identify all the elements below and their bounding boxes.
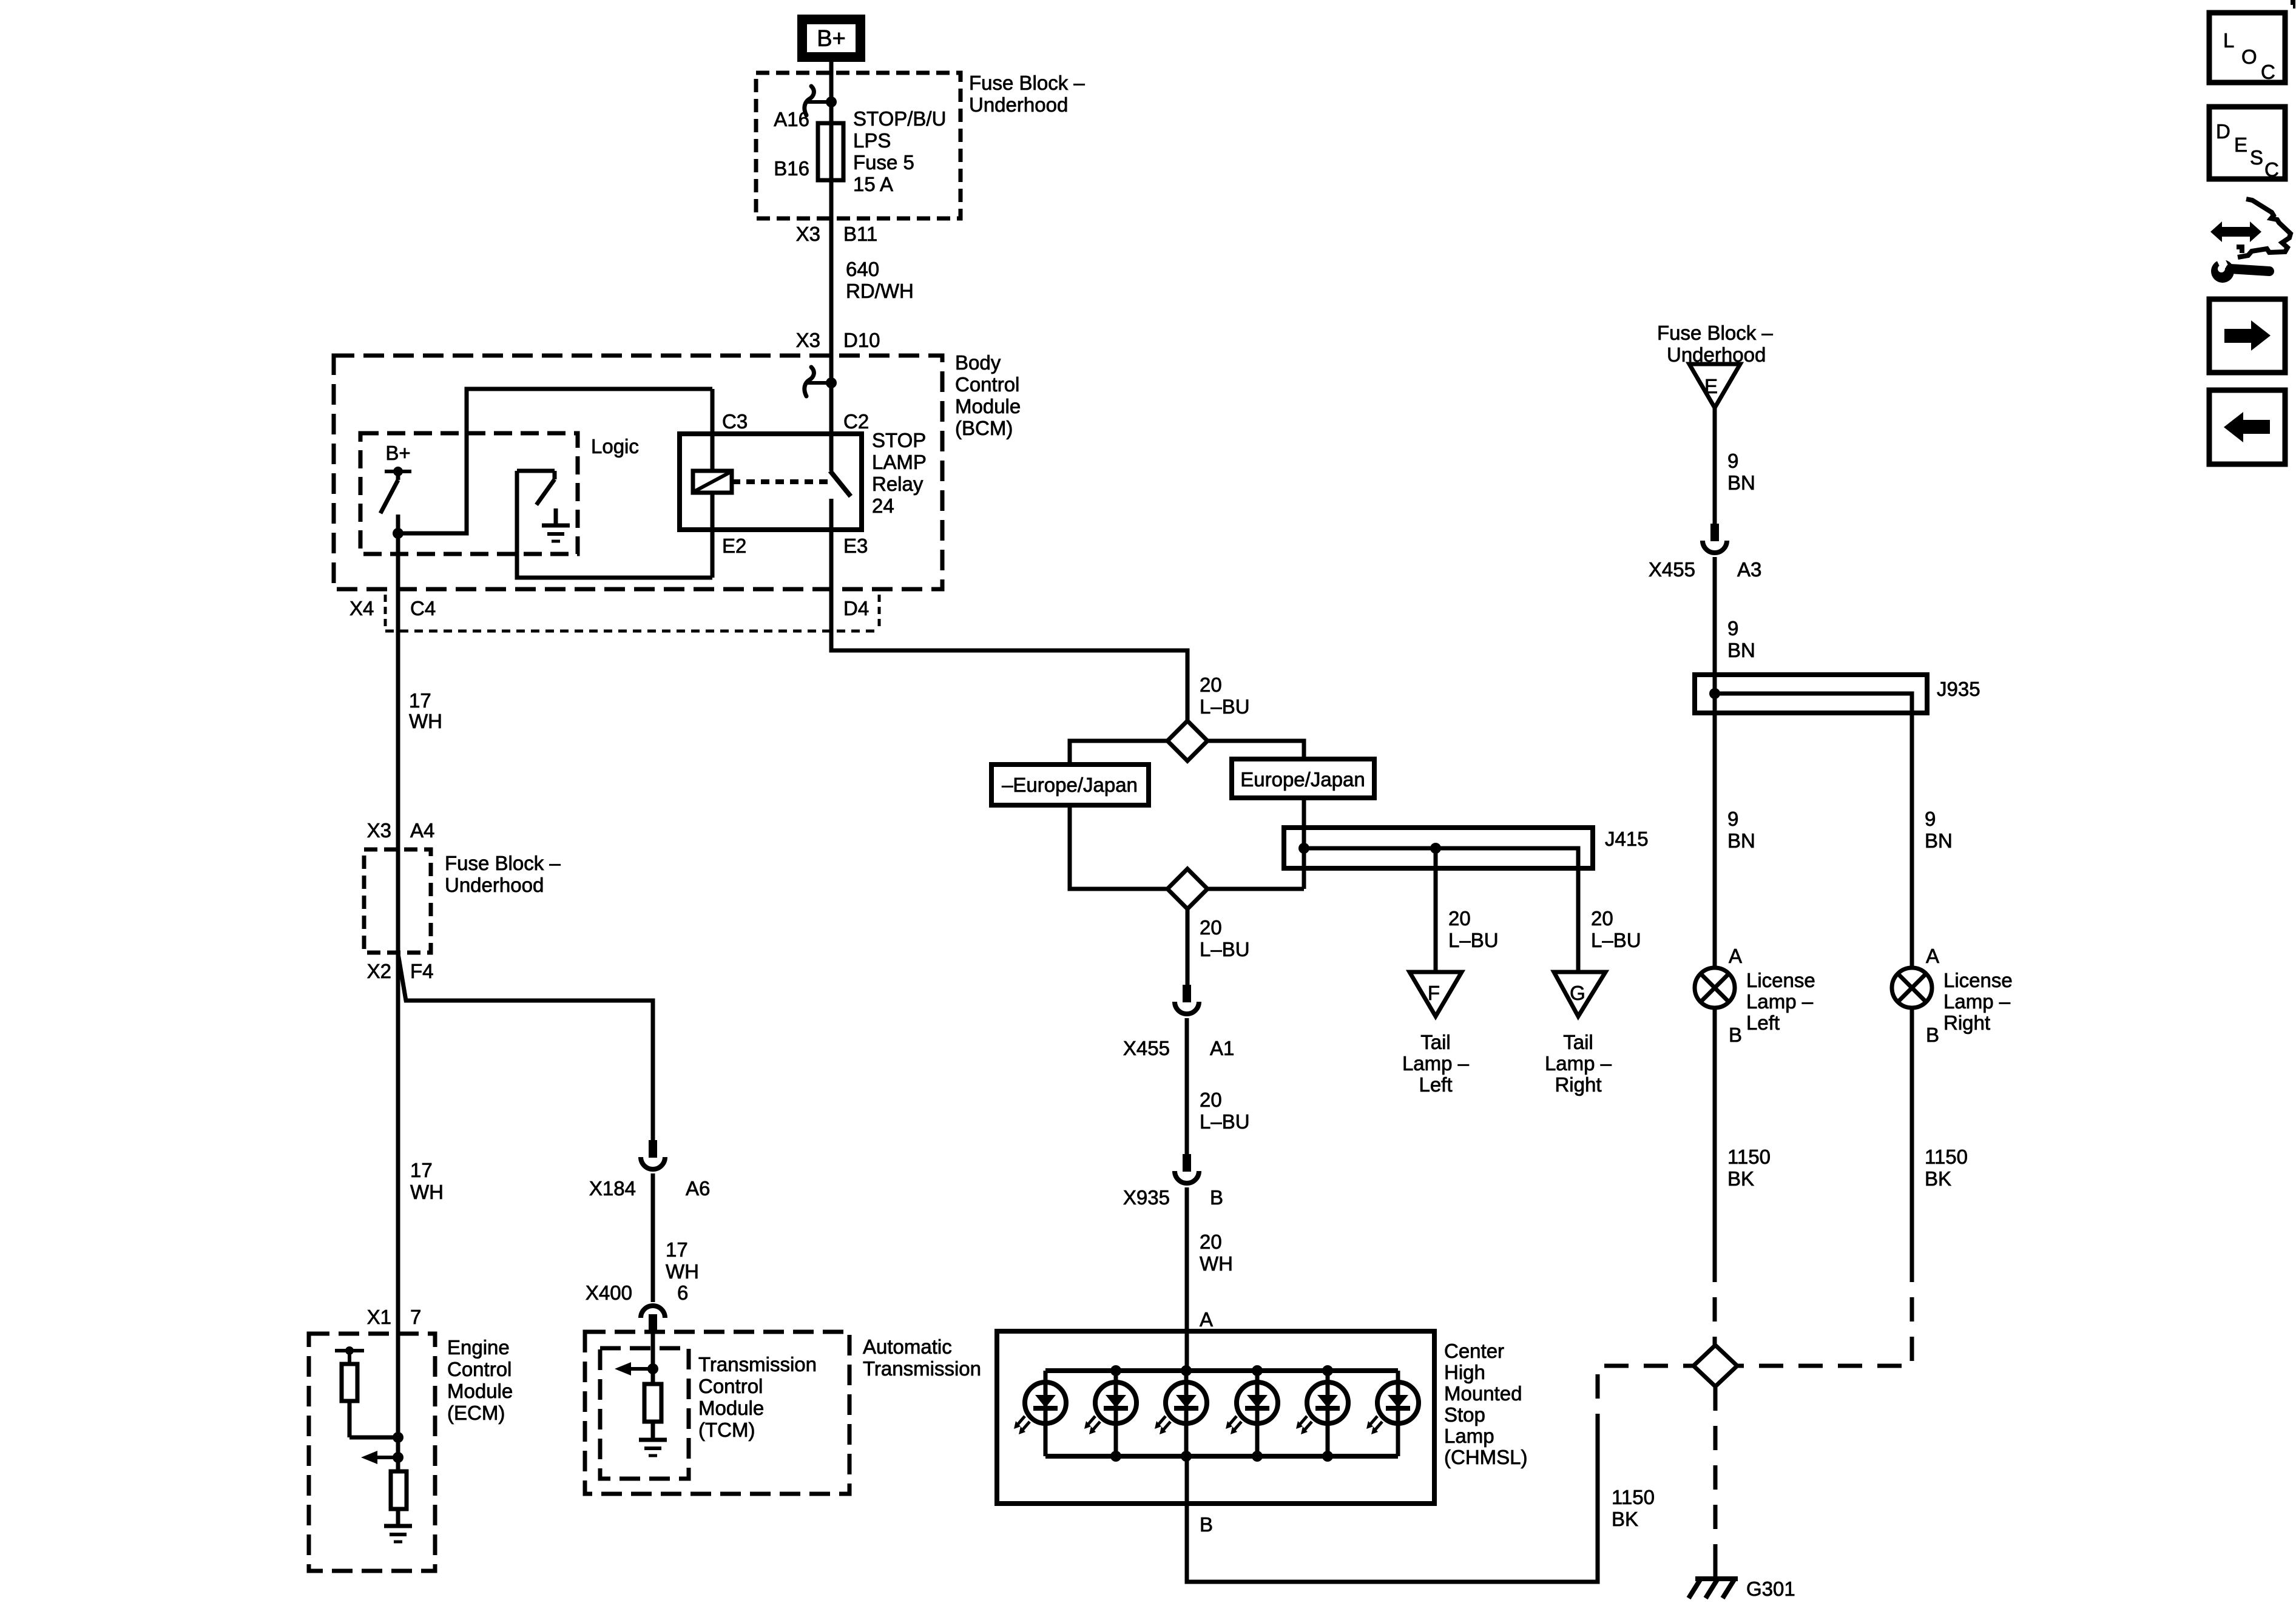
label D10 [843,329,880,351]
svg-text:License: License [1943,969,2013,991]
label A (CHMSL pin) [1200,1308,1213,1331]
fuse F5 STOP/B/U LPS 15A [818,123,843,180]
relay coil (C3-E2) [693,389,732,578]
label wire 17 WH (TCM) [666,1238,699,1283]
svg-text:Automatic: Automatic [863,1335,952,1358]
svg-text:WH: WH [409,710,442,732]
label G301 [1746,1578,1795,1600]
CHMSL LED bus rails [1045,1371,1398,1456]
wire B+ switch to logic [393,515,403,539]
svg-text:D10: D10 [843,329,880,351]
svg-text:Fuse Block –: Fuse Block – [969,72,1085,94]
label Engine Control Module (ECM) [447,1336,513,1424]
label F4 [410,960,434,982]
svg-text:17: 17 [409,689,431,712]
label B11 [843,223,877,245]
svg-text:Fuse Block –: Fuse Block – [1657,322,1773,344]
label Tail Lamp - Right [1545,1031,1612,1096]
svg-text:B: B [1926,1024,1939,1046]
svg-text:E: E [2234,133,2247,156]
svg-text:BN: BN [1727,829,1755,852]
splice diamond (lower) [1167,869,1207,909]
svg-text:Fuse 5: Fuse 5 [853,151,914,174]
svg-text:L–BU: L–BU [1200,938,1250,960]
wire B+ to fuse block [829,62,834,123]
label Automatic Transmission [863,1335,981,1380]
svg-text:STOP: STOP [872,429,926,451]
svg-text:X3: X3 [796,329,820,351]
svg-text:B: B [1200,1513,1213,1536]
svg-text:B+: B+ [817,26,846,52]
label 6 [677,1281,688,1304]
label wire 20 WH [1200,1230,1233,1275]
inline connector X935 B [1175,1154,1199,1183]
label B (left lamp) [1729,1024,1742,1046]
dashed wire right lamp to diamond [1737,1258,1912,1366]
svg-text:BK: BK [1925,1167,1951,1190]
wire left lamp ground 1150 BK [1713,1008,1717,1258]
svg-text:20: 20 [1200,1230,1222,1253]
svg-text:Left: Left [1746,1011,1780,1034]
wire Europe/Japan through J415 [1302,798,1306,889]
svg-text:(BCM): (BCM) [955,417,1013,439]
svg-text:Engine: Engine [447,1336,510,1359]
svg-text:G301: G301 [1746,1578,1795,1600]
svg-text:Body: Body [955,351,1001,374]
license lamp left symbol [1695,968,1735,1008]
svg-text:A4: A4 [410,819,434,842]
label X3 (fuse block pin) [796,223,820,245]
svg-text:Stop: Stop [1444,1403,1485,1426]
svg-text:X2: X2 [367,960,391,982]
svg-text:B: B [1210,1186,1223,1209]
svg-text:X3: X3 [367,819,391,842]
svg-text:Lamp –: Lamp – [1402,1052,1470,1075]
svg-text:WH: WH [1200,1252,1233,1275]
svg-text:Control: Control [447,1358,512,1380]
svg-text:20: 20 [1448,907,1471,930]
wire through J935 to left lamp [1713,675,1717,968]
svg-text:X935: X935 [1123,1186,1170,1209]
dashed wire left lamp to diamond [1713,1258,1717,1345]
wire inside ECM [396,1334,400,1471]
svg-text:X455: X455 [1649,558,1695,581]
svg-text:1150: 1150 [1727,1146,1771,1168]
svg-text:O: O [2241,46,2257,68]
svg-text:(TCM): (TCM) [698,1419,755,1441]
label License Lamp - Right [1943,969,2013,1034]
svg-text:X1: X1 [367,1306,391,1328]
off-page triangle F tail lamp left [1410,972,1462,1016]
label wire 1150 BK (CHMSL) [1612,1486,1655,1530]
wire X935 to CHMSL [1185,1187,1189,1371]
svg-text:Right: Right [1943,1011,1990,1034]
svg-text:J935: J935 [1937,678,1980,700]
label wire 20 L-BU (above X935) [1200,1089,1250,1133]
label C2 [843,410,869,433]
svg-text:(CHMSL): (CHMSL) [1444,1446,1528,1468]
label B16 [774,157,809,180]
svg-text:C: C [2261,61,2275,83]
relay switch (C2-E3) [830,471,851,530]
splice pack J415 [1284,828,1593,868]
label fuse block underhood (right) [1657,322,1773,366]
wire F4 to ECM [396,849,400,1334]
wire to Europe/Japan option [1207,741,1304,759]
svg-text:Lamp –: Lamp – [1545,1052,1612,1075]
TCM resistor [644,1369,661,1440]
label wire 20 L-BU (upper) [1200,673,1250,718]
label A6 [686,1177,710,1200]
svg-text:9: 9 [1727,808,1738,830]
inline connector X455 A3 [1703,524,1727,553]
label B+ (BCM internal) [385,442,410,464]
svg-text:D: D [2216,120,2230,143]
label fuse block underhood (top) [969,72,1085,116]
LED 3 of CHMSL [1155,1365,1207,1462]
svg-text:A6: A6 [686,1177,710,1200]
svg-text:X400: X400 [586,1281,632,1304]
wire branch to TCM [398,954,653,1140]
label fuse block underhood (left) [445,852,561,896]
wire X184 to X400 [651,1173,655,1302]
svg-text:A: A [1729,945,1742,967]
ground G301 symbol [1689,1579,1738,1598]
svg-text:Relay: Relay [872,473,923,495]
label E2 [722,535,746,557]
power feed B+ terminal box [802,19,860,57]
inline connector X400 6 [641,1306,665,1333]
wire -Europe/Japan to lower diamond [1070,805,1167,889]
label J415 [1605,828,1649,850]
wire CHMSL ground 1150 BK [1187,1438,1598,1582]
label X4 [349,597,374,619]
label A4 [410,819,434,842]
J415 internal bus [1298,843,1578,868]
label D4 [843,597,869,619]
svg-text:X455: X455 [1123,1037,1170,1059]
svg-text:F4: F4 [410,960,434,982]
label X184 [589,1177,636,1200]
svg-text:BK: BK [1612,1508,1638,1530]
logic internal switch to ground [517,471,555,505]
dashed wire diamond to G301 [1714,1386,1718,1579]
wire J935 to right lamp [1910,713,1914,968]
label Center High Mounted Stop Lamp (CHMSL) [1444,1340,1528,1468]
svg-text:640: 640 [846,258,879,280]
svg-text:L–BU: L–BU [1448,929,1499,951]
svg-text:20: 20 [1200,916,1222,939]
svg-text:24: 24 [872,495,894,517]
TCM internal ground [639,1440,667,1456]
TCM signal tap arrow [615,1362,658,1376]
label wire 20 L-BU (tail left) [1448,907,1499,951]
page corner mark [2291,0,2295,8]
icon forward arrow box [2209,299,2285,373]
label X455 (A1) [1123,1037,1170,1059]
svg-text:LAMP: LAMP [872,451,927,473]
svg-text:WH: WH [410,1181,444,1203]
svg-text:E2: E2 [722,535,746,557]
svg-text:20: 20 [1200,673,1222,696]
off-page triangle E fuse block [1689,364,1740,408]
svg-text:A1: A1 [1210,1037,1234,1059]
svg-text:F: F [1428,982,1440,1004]
svg-text:–Europe/Japan: –Europe/Japan [1002,774,1138,796]
label E3 [843,535,868,557]
svg-text:B16: B16 [774,157,809,180]
svg-text:A16: A16 [774,108,809,130]
svg-text:B11: B11 [843,223,877,245]
engine control module dashed box [309,1334,435,1571]
svg-text:E: E [1704,375,1718,397]
label B (X935) [1210,1186,1223,1209]
LED 2 of CHMSL [1084,1365,1136,1462]
svg-text:Europe/Japan: Europe/Japan [1240,768,1365,791]
svg-text:1150: 1150 [1925,1146,1968,1168]
inline connector X455 A1 [1175,985,1199,1014]
logic dashed box [360,433,578,554]
label B (CHMSL pin) [1200,1513,1213,1536]
svg-text:L–BU: L–BU [1200,1110,1250,1133]
label wire 640 RD/WH [846,258,914,302]
svg-text:Fuse Block –: Fuse Block – [445,852,561,874]
svg-text:1150: 1150 [1612,1486,1655,1508]
label X2 [367,960,391,982]
label A3 [1737,558,1761,581]
svg-text:J415: J415 [1605,828,1649,850]
body control module dashed box [334,356,942,589]
relay box STOP LAMP Relay 24 [680,434,862,530]
svg-text:BN: BN [1727,471,1755,494]
label Logic [591,435,639,457]
label wire 9 BN (left lamp) [1727,808,1755,852]
svg-text:A: A [1200,1308,1213,1331]
CHMSL housing box [997,1331,1434,1504]
fuse block bus hook at A16 [805,86,837,115]
label X3 (left fuse block) [367,819,391,842]
svg-text:Right: Right [1555,1073,1601,1096]
ECM internal ground [384,1526,412,1542]
BCM bus hook at D10 [805,367,837,396]
wire J415 to tail lamp left [1434,848,1438,972]
svg-text:C2: C2 [843,410,869,433]
splice diamond (upper) [1167,721,1207,761]
label X455 (A3) [1649,558,1695,581]
LED 1 of CHMSL [1014,1371,1066,1456]
label X1 [367,1306,391,1328]
ECM pull-up resistor [335,1346,403,1443]
svg-text:20: 20 [1200,1089,1222,1111]
option box -Europe/Japan [991,765,1149,805]
label wire 20 L-BU (tail right) [1591,907,1641,951]
svg-text:Underhood: Underhood [969,93,1068,116]
svg-text:C3: C3 [722,410,748,433]
label X3 (BCM pin) [796,329,820,351]
automatic transmission dashed box [585,1332,849,1494]
svg-text:Underhood: Underhood [445,874,544,896]
svg-text:Tail: Tail [1420,1031,1451,1053]
LED 6 of CHMSL [1366,1371,1419,1456]
wire right lamp ground 1150 BK [1910,1008,1914,1258]
inline connector X184 A6 [641,1140,665,1169]
fuse block underhood dashed box (top) [756,73,961,218]
svg-text:17: 17 [410,1159,433,1181]
svg-text:BN: BN [1925,829,1953,852]
label STOP LAMP Relay 24 [872,429,927,517]
ground splice diamond [1693,1345,1737,1386]
wire C4 down from BCM [396,533,400,849]
svg-text:X184: X184 [589,1177,636,1200]
svg-text:D4: D4 [843,597,869,619]
label wire 1150 BK (left) [1727,1146,1771,1190]
icon LOC box [2209,13,2285,83]
svg-text:Control: Control [955,373,1019,396]
svg-text:BN: BN [1727,639,1755,661]
wire lower diamond link [1207,887,1304,891]
splice pack J935 [1695,675,1927,713]
svg-text:RD/WH: RD/WH [846,280,914,302]
fuse block underhood dashed box (left) [364,849,431,953]
label Tail Lamp - Left [1402,1031,1470,1096]
svg-text:E3: E3 [843,535,868,557]
svg-text:S: S [2250,146,2263,169]
icon DESC box [2209,107,2285,181]
svg-text:6: 6 [677,1281,688,1304]
label Body Control Module (BCM) [955,351,1021,439]
label wire 1150 BK (right) [1925,1146,1968,1190]
LED 4 of CHMSL [1226,1365,1278,1462]
label 7 [410,1306,421,1328]
ECM pull-down resistor [391,1471,407,1526]
wire to -Europe/Japan option [1070,741,1167,765]
logic block bottom edge [517,471,712,578]
label wire 20 L-BU (below diamond) [1200,916,1250,960]
svg-text:Lamp –: Lamp – [1746,990,1814,1013]
label Transmission Control Module (TCM) [698,1353,817,1441]
svg-text:Center: Center [1444,1340,1504,1362]
J935 internal bus [1709,688,1912,713]
label X935 [1123,1186,1170,1209]
svg-text:Module: Module [955,395,1021,417]
svg-text:A: A [1926,945,1939,967]
label A (right lamp) [1926,945,1939,967]
label X400 [586,1281,632,1304]
svg-text:L: L [2223,29,2234,52]
svg-text:L–BU: L–BU [1200,695,1250,718]
svg-text:License: License [1746,969,1815,991]
wire J415 to tail lamp right [1576,868,1581,972]
label wire 9 BN (right lamp) [1925,808,1953,852]
label fuse name [853,107,946,195]
svg-text:G: G [1570,982,1585,1004]
logic internal ground [542,508,570,541]
off-page triangle G tail lamp right [1554,972,1606,1016]
transmission control module dashed box [600,1348,689,1479]
wire E to X455 A3 [1713,408,1717,524]
icon back arrow box [2209,390,2285,464]
LED 5 of CHMSL [1296,1365,1348,1462]
label License Lamp - Left [1746,969,1815,1034]
wire X455 A3 to J935 [1713,557,1717,675]
wire X400 into TCM [651,1333,655,1369]
svg-text:Tail: Tail [1563,1031,1593,1053]
svg-text:Module: Module [698,1397,764,1419]
option box Europe/Japan [1232,759,1374,798]
svg-text:BK: BK [1727,1167,1754,1190]
svg-text:B: B [1729,1024,1742,1046]
license lamp right symbol [1892,968,1932,1008]
svg-text:(ECM): (ECM) [447,1402,505,1424]
ECM signal tap arrow [361,1451,403,1464]
wire X455 to X935 [1185,1018,1189,1154]
wire lower diamond down [1186,909,1190,985]
svg-text:X4: X4 [349,597,374,619]
label wire 17 WH (upper) [409,689,442,732]
svg-text:15 A: 15 A [853,173,893,195]
svg-text:X3: X3 [796,223,820,245]
svg-text:High: High [1444,1361,1485,1383]
svg-text:Lamp –: Lamp – [1943,990,2011,1013]
svg-text:L–BU: L–BU [1591,929,1641,951]
wire E3/D4 to splice diamond [831,530,1187,721]
svg-text:LPS: LPS [853,129,891,152]
BCM internal B+ switch [380,467,411,513]
wire fuse to BCM C2 [829,180,834,471]
svg-text:C4: C4 [410,597,436,619]
label A1 [1210,1037,1234,1059]
svg-text:A3: A3 [1737,558,1761,581]
svg-text:Mounted: Mounted [1444,1382,1522,1405]
svg-text:17: 17 [666,1238,688,1261]
svg-text:Control: Control [698,1375,763,1397]
svg-text:Transmission: Transmission [863,1357,981,1380]
label A16 [774,108,809,130]
svg-text:9: 9 [1727,450,1738,472]
label wire 17 WH (ECM) [410,1159,444,1203]
svg-text:Transmission: Transmission [698,1353,817,1376]
label J935 [1937,678,1980,700]
svg-text:20: 20 [1591,907,1613,930]
svg-text:Left: Left [1419,1073,1452,1096]
label wire 9 BN (upper) [1727,450,1755,494]
svg-text:9: 9 [1727,617,1738,640]
label C3 [722,410,748,433]
svg-text:9: 9 [1925,808,1936,830]
svg-text:Lamp: Lamp [1444,1425,1494,1447]
svg-text:B+: B+ [385,442,410,464]
icon part-locator (arrow, outline, wrench) [2210,199,2291,283]
svg-text:STOP/B/U: STOP/B/U [853,107,946,130]
svg-text:C: C [2264,158,2279,181]
dashed wire CHMSL to ground diamond [1598,1366,1693,1438]
svg-text:Logic: Logic [591,435,639,457]
label A (left lamp) [1729,945,1742,967]
svg-text:WH: WH [666,1260,699,1283]
X4 connector dotted strip [385,595,879,631]
label wire 9 BN (above J935) [1727,617,1755,661]
label C4 [410,597,436,619]
label B (right lamp) [1926,1024,1939,1046]
logic block solid outline [399,389,712,533]
svg-text:7: 7 [410,1306,421,1328]
relay actuation dashed link [732,479,829,484]
svg-text:Module: Module [447,1380,513,1402]
